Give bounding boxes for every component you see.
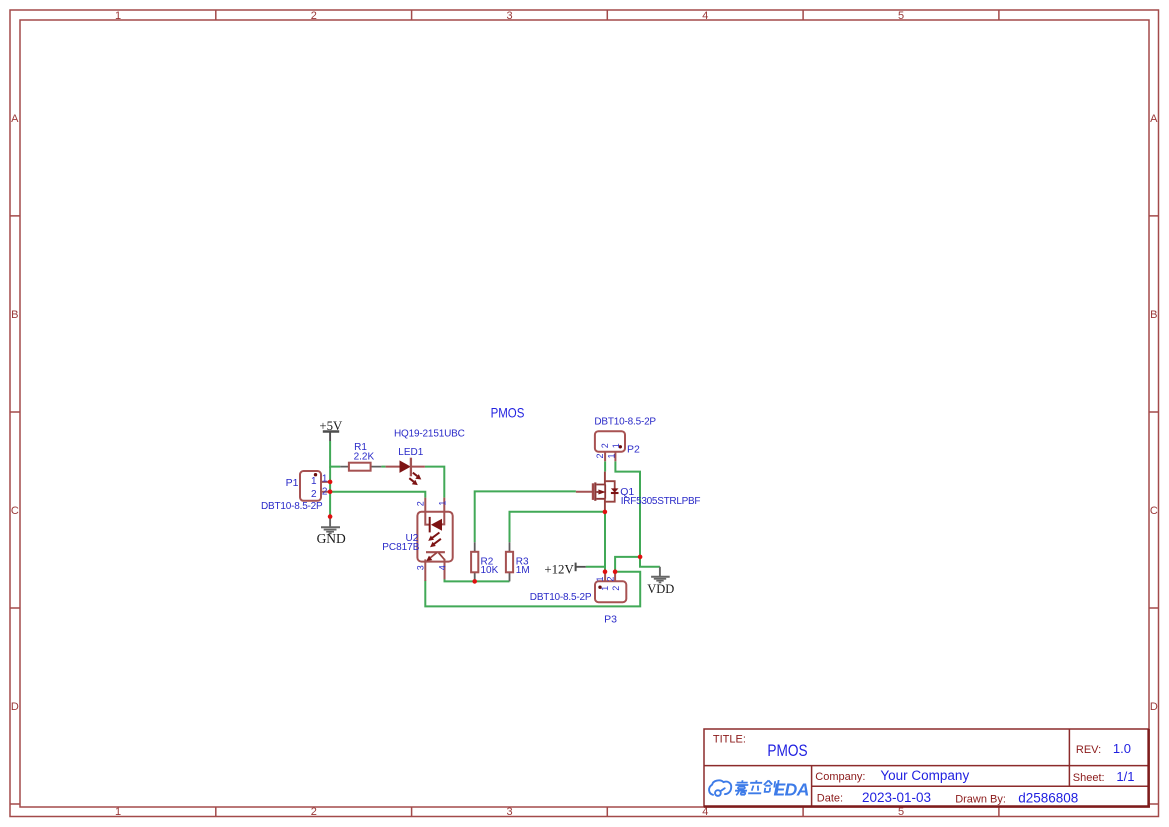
wire LED1 to U2 pin1 (425, 467, 444, 498)
wire P1 pin2 to U2 pin2 (330, 492, 425, 498)
svg-text:GND: GND (317, 531, 346, 546)
JLCEDA logo (709, 780, 731, 796)
svg-text:2: 2 (600, 443, 610, 448)
svg-text:REV:: REV: (1076, 744, 1101, 756)
svg-text:DBT10-8.5-2P: DBT10-8.5-2P (261, 501, 323, 512)
svg-text:VDD: VDD (647, 582, 674, 596)
svg-text:+12V: +12V (544, 563, 574, 577)
svg-text:1.0: 1.0 (1113, 741, 1131, 756)
ground GND (321, 517, 340, 534)
svg-text:C: C (1150, 505, 1158, 517)
svg-text:Drawn By:: Drawn By: (955, 794, 1006, 806)
svg-text:TITLE:: TITLE: (713, 733, 746, 745)
mosfet Q1 (576, 472, 701, 512)
junction Q1 drain (603, 510, 608, 515)
svg-text:1: 1 (611, 443, 621, 448)
svg-text:B: B (11, 309, 18, 321)
svg-text:2: 2 (311, 489, 317, 500)
svg-text:A: A (1150, 113, 1158, 125)
TITLE BLOCK (704, 729, 1150, 807)
svg-text:4: 4 (702, 806, 708, 818)
svg-text:P2: P2 (627, 443, 640, 455)
svg-text:Sheet:: Sheet: (1073, 772, 1105, 784)
svg-text:2: 2 (611, 586, 621, 591)
svg-text:1: 1 (115, 806, 121, 818)
svg-text:P1: P1 (286, 477, 299, 489)
svg-text:1M: 1M (516, 565, 530, 576)
svg-text:A: A (11, 113, 19, 125)
led LED1 (386, 428, 465, 485)
svg-text:PC817B: PC817B (382, 542, 420, 553)
svg-text:5: 5 (898, 10, 904, 22)
wire U2 pin3 bottom loop to P3 pin2 (425, 572, 640, 607)
wire +5V to R1/P1 rail (330, 441, 340, 467)
svg-text:3: 3 (415, 565, 425, 570)
svg-text:1: 1 (607, 453, 617, 458)
junction VDD net (638, 555, 643, 560)
svg-text:1/1: 1/1 (1116, 769, 1134, 784)
svg-text:1: 1 (311, 476, 317, 487)
svg-text:2: 2 (322, 486, 328, 497)
wire P2 pin1 to VDD (615, 461, 660, 567)
wire P1 pins to GND (329, 467, 331, 517)
svg-text:2: 2 (595, 453, 605, 458)
svg-text:1: 1 (600, 586, 610, 591)
svg-text:1: 1 (115, 10, 121, 22)
svg-text:10K: 10K (481, 565, 499, 576)
svg-text:d2586808: d2586808 (1018, 790, 1078, 805)
svg-text:2: 2 (415, 501, 425, 506)
svg-text:4: 4 (437, 565, 447, 570)
svg-text:Your Company: Your Company (880, 768, 969, 783)
resistor R3 (506, 542, 530, 581)
svg-text:2.2K: 2.2K (354, 452, 375, 463)
svg-text:1: 1 (438, 501, 448, 506)
svg-text:PMOS: PMOS (767, 742, 807, 760)
svg-text:DBT10-8.5-2P: DBT10-8.5-2P (594, 416, 656, 427)
svg-text:DBT10-8.5-2P: DBT10-8.5-2P (530, 592, 592, 603)
wire R2 top to Q1 gate (475, 491, 576, 542)
svg-text:P3: P3 (604, 614, 617, 626)
svg-text:3: 3 (507, 806, 513, 818)
wire R1 to LED1 (381, 466, 385, 468)
junction P1 pin1 (328, 480, 333, 485)
svg-text:1: 1 (322, 474, 328, 485)
wire U2 pin4 to R2 R3 bottom rail (445, 579, 510, 581)
svg-text:IRF5305STRLPBF: IRF5305STRLPBF (621, 496, 701, 507)
svg-text:2: 2 (606, 576, 616, 581)
svg-text:Date:: Date: (817, 793, 843, 805)
power flag +5V (323, 432, 339, 442)
svg-text:D: D (1150, 701, 1158, 713)
wire R3 top to Q1 drain node (510, 512, 605, 543)
ground VDD (651, 567, 670, 583)
svg-text:5: 5 (898, 806, 904, 818)
svg-text:D: D (11, 701, 19, 713)
connector P2 (594, 416, 656, 461)
wire +12V to drain net (586, 566, 605, 568)
svg-text:2023-01-03: 2023-01-03 (862, 790, 931, 805)
connector P3 (530, 572, 627, 626)
svg-text:PMOS: PMOS (491, 405, 525, 421)
junction R2 bottom (472, 579, 477, 584)
wire P3 pin2 up to VDD net (615, 557, 640, 572)
junction GND branch (328, 514, 333, 519)
svg-text:LED1: LED1 (398, 447, 423, 458)
wire P2 pin2 to Q1 source (604, 461, 606, 471)
svg-text:4: 4 (702, 10, 708, 22)
svg-text:+5V: +5V (319, 419, 343, 433)
connector P1 (261, 471, 329, 512)
power flag +12V (576, 563, 586, 572)
junction P3 pin2 (613, 569, 618, 574)
svg-text:1: 1 (595, 576, 605, 581)
svg-text:B: B (1150, 309, 1157, 321)
resistor R2 (471, 542, 499, 581)
resistor R1 (340, 442, 381, 471)
wire Q1 drain to P3 pin1 (604, 512, 606, 572)
junction P3 pin1 (603, 569, 608, 574)
junction P1 pin2 (328, 489, 333, 494)
svg-text:C: C (11, 505, 19, 517)
svg-text:Company:: Company: (815, 771, 865, 783)
svg-text:2: 2 (311, 806, 317, 818)
svg-text:EDA: EDA (774, 780, 809, 800)
svg-text:2: 2 (311, 10, 317, 22)
svg-text:3: 3 (507, 10, 513, 22)
optocoupler U2 (382, 498, 452, 581)
svg-text:HQ19-2151UBC: HQ19-2151UBC (394, 428, 465, 439)
